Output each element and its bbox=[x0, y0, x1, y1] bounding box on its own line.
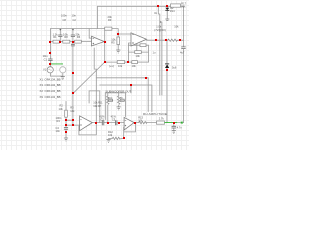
svg-text:10k: 10k bbox=[118, 64, 123, 68]
svg-text:10k: 10k bbox=[70, 109, 75, 113]
svg-text:R4: R4 bbox=[57, 119, 61, 123]
svg-text:41%: 41% bbox=[111, 115, 117, 119]
svg-text:OPA134_BB: OPA134_BB bbox=[45, 95, 61, 99]
svg-text:41%: 41% bbox=[99, 115, 105, 119]
svg-text:200k: 200k bbox=[109, 100, 113, 102]
svg-text:2.7k: 2.7k bbox=[159, 117, 165, 121]
svg-text:10k: 10k bbox=[108, 133, 113, 137]
svg-text:5u6: 5u6 bbox=[172, 65, 177, 69]
svg-text:OPA134_BB: OPA134_BB bbox=[45, 83, 61, 87]
svg-text:100n: 100n bbox=[61, 14, 67, 18]
svg-text:C8: C8 bbox=[63, 18, 67, 22]
svg-text:R1: R1 bbox=[53, 35, 57, 39]
svg-text:X9: X9 bbox=[40, 95, 44, 99]
svg-text:R6: R6 bbox=[77, 35, 81, 39]
svg-text:OPA134_BB: OPA134_BB bbox=[45, 89, 61, 93]
svg-text:R7: R7 bbox=[98, 104, 102, 108]
svg-text:(+L): (+L) bbox=[109, 64, 114, 68]
svg-text:10k: 10k bbox=[136, 54, 141, 58]
svg-text:R9: R9 bbox=[108, 18, 112, 22]
svg-text:10m: 10m bbox=[43, 54, 48, 58]
svg-text:10k: 10k bbox=[138, 118, 143, 122]
svg-text:X2: X2 bbox=[40, 89, 44, 93]
svg-text:4.7n: 4.7n bbox=[177, 126, 183, 130]
svg-text:(7V@0V): (7V@0V) bbox=[154, 28, 166, 32]
svg-text:OPA134_BB: OPA134_BB bbox=[45, 77, 61, 81]
svg-text:SUBWOOFER OUT: SUBWOOFER OUT bbox=[105, 89, 131, 93]
svg-text:10k: 10k bbox=[132, 64, 137, 68]
svg-text:10n: 10n bbox=[72, 14, 77, 18]
svg-text:10n: 10n bbox=[56, 129, 61, 133]
svg-text:V1: V1 bbox=[43, 68, 47, 72]
svg-text:R8: R8 bbox=[64, 35, 68, 39]
svg-text:X3: X3 bbox=[40, 83, 44, 87]
svg-text:R5: R5 bbox=[111, 41, 115, 45]
svg-text:13k: 13k bbox=[59, 107, 64, 111]
svg-text:10k: 10k bbox=[174, 24, 179, 28]
svg-text:20k: 20k bbox=[181, 5, 186, 9]
svg-text:C1: C1 bbox=[44, 58, 48, 62]
svg-text:R11: R11 bbox=[98, 100, 103, 104]
svg-text:4u7: 4u7 bbox=[180, 50, 185, 54]
svg-text:C2: C2 bbox=[73, 18, 77, 22]
svg-text:RH AMPLITUDE: RH AMPLITUDE bbox=[143, 112, 167, 116]
svg-text:X1: X1 bbox=[40, 77, 44, 81]
svg-text:100k: 100k bbox=[121, 100, 125, 102]
svg-text:1N4: 1N4 bbox=[170, 9, 175, 13]
